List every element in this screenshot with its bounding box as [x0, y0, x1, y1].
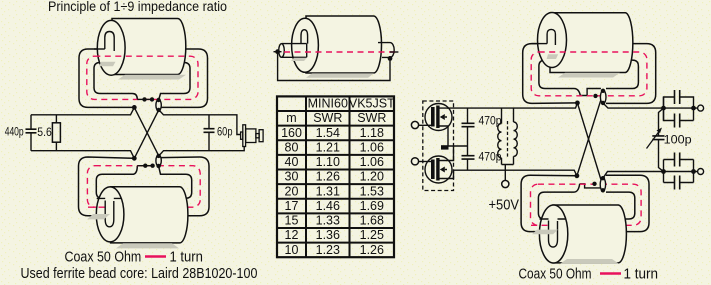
node output bottom left: [661, 169, 666, 174]
svg-text:+50V: +50V: [489, 198, 520, 214]
coax turn T1 (red dashed): [87, 56, 198, 99]
coax stub left end ellipse: [279, 44, 285, 58]
wire return loop under middle bead: [278, 52, 390, 81]
svg-text:1 turn: 1 turn: [170, 250, 203, 266]
capacitor C7 plates: [675, 153, 680, 167]
coax end cross-section T4: [600, 178, 605, 191]
wire T2 centre tap segment: [137, 165, 152, 167]
shadow under T1 bead: [118, 75, 186, 80]
svg-text:1.10: 1.10: [316, 155, 340, 169]
wire bottom rail right: [603, 172, 698, 179]
shadow under T4 bead: [560, 259, 619, 264]
node T2 end top: [156, 154, 160, 158]
svg-text:100p: 100p: [664, 135, 692, 147]
wire top rail left: [31, 107, 134, 114]
ferrite bead core T3 hole (arch): [547, 29, 555, 45]
svg-text:Coax 50 Ohm: Coax 50 Ohm: [65, 250, 142, 266]
connector J1 pin bar: [241, 132, 243, 139]
coax turn T2 (red dashed): [87, 166, 200, 208]
connector J1 body: [246, 129, 256, 143]
ferrite bead core T1 hole (arch): [105, 32, 114, 52]
shadow under middle bead: [306, 73, 374, 77]
capacitor C2 60p leads: [208, 115, 210, 151]
wire through T1 donut: [94, 48, 105, 50]
svg-text:60p: 60p: [217, 127, 233, 139]
svg-text:470p: 470p: [479, 151, 502, 163]
transformer T1 winding inner tube: [94, 63, 190, 100]
svg-text:1.06: 1.06: [360, 141, 384, 155]
node T3 tap: [593, 94, 597, 98]
wire top rail right: [603, 103, 698, 108]
capacitor C6 plates: [675, 114, 680, 128]
wire bottom rail right: [159, 147, 244, 156]
ferrite bead core T1 body: [112, 19, 186, 75]
coax turn T3 (red dashed): [531, 52, 647, 96]
transistor Q1 gate bar: [431, 107, 435, 127]
transistor Q1 channel bar: [436, 106, 439, 129]
coax centre conductor (red dashed): [284, 51, 395, 53]
wire bottom rail left: [454, 170, 577, 176]
node T3 end top: [601, 89, 605, 93]
node T1 end top: [156, 98, 160, 102]
ferrite bead core T4 body: [553, 205, 626, 263]
svg-text:VK5JST: VK5JST: [349, 97, 395, 111]
node output bottom right: [691, 169, 696, 174]
shadow under left stub: [291, 58, 307, 61]
node T4 end top: [601, 176, 605, 180]
input terminal 2: [411, 158, 418, 165]
output cap pair bottom branch lower: [664, 182, 694, 184]
wire through T2 donut: [97, 197, 122, 199]
shadow under T3 bead: [558, 73, 620, 78]
output cap pair top branch upper: [664, 97, 694, 121]
svg-text:12: 12: [285, 228, 299, 242]
node T1 tap b: [150, 97, 154, 101]
wire tick left: [274, 51, 282, 53]
transistor Q1 leads: [439, 108, 448, 126]
svg-text:17: 17: [285, 199, 299, 213]
wire L1 bottom join: [502, 165, 514, 181]
capacitor C2 60p plates: [204, 129, 215, 133]
svg-text:SWR: SWR: [313, 111, 342, 125]
svg-text:1.23: 1.23: [316, 243, 340, 257]
ferrite bead core T4 left end (donut): [539, 205, 567, 263]
dashed enclosure box: [423, 101, 454, 191]
ferrite bead core T1 left end (donut): [97, 20, 125, 75]
node T3 left exit: [575, 101, 580, 106]
shadow in T1 donut: [99, 62, 116, 67]
svg-text:20: 20: [285, 184, 299, 198]
coax end cross-section T2: [156, 155, 161, 166]
node T3 end bottom: [601, 101, 605, 105]
inductor L1 core (dashed): [507, 121, 509, 158]
connector J1 flange: [243, 125, 246, 147]
wire tick right: [390, 51, 398, 53]
node T2 left exit: [132, 156, 137, 161]
wire gate lead Q2: [419, 161, 432, 163]
node middle left: [275, 49, 280, 54]
trimmer arrowhead: [657, 128, 663, 134]
ferrite bead middle body: [306, 16, 382, 73]
wire Q1 source to node: [448, 126, 468, 146]
node T1 tap a: [142, 97, 146, 101]
capacitor C4 470p plates: [462, 156, 475, 159]
svg-text:1.21: 1.21: [316, 141, 340, 155]
transformer T4 (bottom, right circuit) winding outer tube: [521, 175, 649, 231]
coax end cross-section T3: [600, 91, 606, 104]
table row lines: [277, 111, 394, 243]
transformer T3 winding inner tube: [539, 60, 639, 95]
svg-text:1.31: 1.31: [316, 184, 340, 198]
coax turn T4 (red dashed): [531, 184, 642, 225]
output terminal bottom: [698, 169, 704, 175]
ferrite bead middle hole (arch): [301, 30, 308, 44]
transformer T3 (top, right circuit) winding outer tube: [523, 44, 656, 104]
svg-text:160: 160: [281, 126, 302, 140]
wire crossing diagonal A: [134, 107, 159, 155]
node T2 end bottom: [156, 164, 160, 168]
transformer T2 winding inner tube: [96, 166, 191, 199]
ferrite bead core T3 body: [550, 13, 633, 73]
wire top rail right: [159, 110, 241, 135]
capacitor C4 470p leads: [467, 146, 469, 170]
shadow under T2 bead: [116, 243, 179, 248]
svg-text:440p: 440p: [5, 127, 24, 139]
capacitor C3 470p leads: [467, 108, 469, 146]
svg-text:1.69: 1.69: [360, 199, 384, 213]
wire T4 tube end step: [580, 184, 601, 188]
svg-text:Principle of 1÷9 impedance rat: Principle of 1÷9 impedance ratio: [48, 0, 227, 14]
svg-text:1.33: 1.33: [316, 214, 340, 228]
wire T3 tube end step: [580, 89, 601, 96]
bias mark between transistors: [441, 145, 449, 149]
node output top right: [691, 106, 696, 111]
svg-text:80: 80: [285, 141, 299, 155]
node T1 end bottom: [156, 108, 160, 112]
wire through T3 donut: [532, 43, 548, 45]
svg-text:1.54: 1.54: [316, 126, 340, 140]
svg-text:30: 30: [285, 170, 299, 184]
resistor R1 5.6 leads: [55, 115, 57, 151]
svg-text:1.25: 1.25: [360, 228, 384, 242]
inductor L1 right winding: [514, 108, 518, 164]
capacitor C1 440p leads: [30, 115, 32, 151]
ferrite bead core T2 left end (donut): [96, 187, 124, 242]
ferrite bead core T4 hole (arch): [549, 221, 558, 248]
node middle right: [388, 56, 393, 61]
capacitor C5 plates: [675, 90, 680, 104]
wire gate lead Q1: [419, 124, 432, 126]
capacitor C3 470p plates: [462, 123, 475, 126]
shadow left of T2 donut: [87, 214, 110, 219]
svg-text:Used ferrite bead core: Laird: Used ferrite bead core: Laird 28B1020-10…: [21, 266, 258, 282]
node output top left: [661, 106, 666, 111]
svg-text:10: 10: [285, 243, 299, 257]
capacitor C1 440p plates: [26, 129, 37, 133]
output cap pair bottom branch upper: [664, 160, 694, 183]
table column lines: [306, 96, 350, 257]
legend red line left: [145, 255, 166, 257]
svg-text:40: 40: [285, 155, 299, 169]
transformer T1 (top, left circuit) winding outer tube: [79, 49, 208, 107]
node T4 left exit: [575, 173, 580, 178]
transistor Q2 arrow: [440, 167, 445, 173]
supply terminal +50V: [502, 180, 509, 187]
svg-text:470p: 470p: [479, 116, 502, 128]
svg-text:1.26: 1.26: [316, 170, 340, 184]
connector J1 end: [259, 130, 263, 142]
trimmer arrow: [647, 130, 661, 149]
svg-text:1.68: 1.68: [360, 214, 384, 228]
node T4 tap: [592, 182, 596, 186]
transformer T4 winding inner tube: [538, 184, 634, 219]
svg-text:1.53: 1.53: [360, 184, 384, 198]
transformer T2 (bottom, left circuit) winding outer tube: [79, 157, 210, 216]
svg-text:MINI60: MINI60: [308, 97, 348, 111]
connector J1 neck: [256, 134, 259, 138]
wire T1 centre tap segment: [137, 98, 152, 100]
svg-text:1.06: 1.06: [360, 155, 384, 169]
coax end cross-section T1: [156, 100, 161, 111]
svg-text:5.6: 5.6: [37, 127, 52, 139]
svg-text:1.46: 1.46: [316, 199, 340, 213]
svg-text:m: m: [286, 111, 296, 125]
trimmer capacitor plates: [652, 136, 664, 140]
transistor Q1 circle: [425, 104, 452, 131]
node T2 tap b: [150, 164, 154, 168]
svg-text:Coax 50 Ohm: Coax 50 Ohm: [519, 267, 592, 283]
shadow in T3 donut: [547, 54, 559, 59]
svg-text:1.18: 1.18: [360, 126, 384, 140]
ferrite bead core T2 body: [111, 187, 188, 243]
wire through T4 donut: [540, 218, 567, 220]
svg-text:15: 15: [285, 214, 299, 228]
wire crossing diagonal B: [134, 110, 159, 159]
wire crossing diagonal C: [577, 103, 601, 180]
coax stub left (small cylinder): [282, 44, 307, 58]
transistor Q2 circle: [425, 156, 452, 183]
ferrite bead middle left end (donut): [292, 18, 319, 72]
transistor Q1 arrow: [440, 114, 445, 120]
transistor Q2 gate bar: [431, 160, 435, 180]
wire top rail left: [447, 103, 577, 108]
transistor Q2 leads: [439, 146, 453, 179]
ferrite bead core T2 hole (arch): [105, 201, 114, 227]
transistor Q2 channel bar: [436, 158, 439, 181]
resistor R1 5.6 body: [52, 123, 60, 142]
shadow left of T4 donut: [532, 230, 558, 235]
node T4 end bottom: [601, 188, 605, 192]
output cap pair top branch lower: [664, 97, 694, 121]
inductor L1 left winding: [498, 108, 502, 164]
legend red line right: [600, 272, 621, 274]
output terminal top: [698, 105, 704, 111]
input terminal 1: [411, 121, 418, 128]
table outer border: [277, 96, 394, 257]
wire bottom rail left: [31, 151, 134, 159]
svg-text:1.20: 1.20: [360, 170, 384, 184]
svg-text:1.36: 1.36: [316, 228, 340, 242]
capacitor C8 plates: [675, 176, 680, 190]
svg-text:1 turn: 1 turn: [624, 267, 659, 283]
coax T4 red dashes over donut: [531, 224, 551, 226]
node T2 tap a: [143, 164, 147, 168]
node T1 left exit: [132, 105, 137, 110]
coax stub right (small cylinder): [378, 43, 394, 58]
trimmer capacitor leads: [659, 108, 664, 171]
wire crossing diagonal D: [577, 100, 601, 176]
coax T2 red dashes over donut: [88, 206, 107, 208]
ferrite bead core T3 left end (donut): [538, 13, 567, 68]
svg-text:SWR: SWR: [357, 111, 386, 125]
svg-text:1.26: 1.26: [360, 243, 384, 257]
